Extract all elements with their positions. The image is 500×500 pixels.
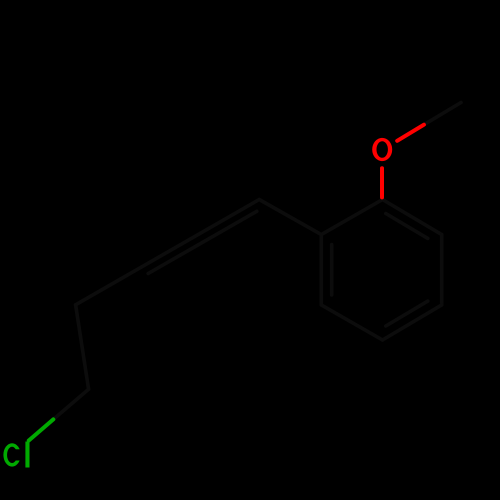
bond C10-C11 (CH2-CH2) [76,305,89,389]
collinear run C7-C8/C8#C9/C9-C10 (alkyne axis) [76,200,260,305]
bond O-CH3 oxygen half (red part) [397,125,424,141]
aromatic inner line C1=C2 [386,214,428,239]
atom label Cl: letter C [3,443,20,466]
bond C5-C6 (benzene ring left edge) [319,235,323,305]
bond C4-C5 (benzene ring bottom-left edge) [321,305,382,340]
bond O-CH3 carbon half (dark part) [424,103,461,125]
atom label Cl: letter l [25,442,29,468]
bond C11-Cl carbon half (dark part) [53,389,88,419]
bond C2-C3 (benzene ring right edge) [440,235,444,305]
bond C6-C1 (benzene ring top-left edge) [321,200,382,235]
bond C1-C2 (benzene ring top-right edge) [383,200,442,235]
bond O-C1 (methoxy oxygen to ring, red) [380,168,384,197]
aromatic inner line C5=C6 [330,245,334,295]
aromatic inner line C3=C4 [386,301,428,326]
bond C11-Cl chlorine half (green part) [29,419,54,440]
bond C6-C7 (ring to benzylic CH2) [259,200,321,235]
atom label O (methoxy oxygen) [372,138,392,161]
bond C3-C4 (benzene ring bottom-right edge) [383,305,442,340]
alkyne second line parallel to C8#C9 [148,211,257,273]
